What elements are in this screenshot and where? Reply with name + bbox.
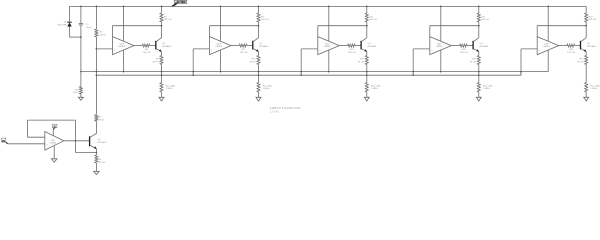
transistor Q2	[253, 38, 259, 52]
resistor R23 emitter	[585, 56, 588, 65]
ground stage 2	[256, 97, 261, 101]
wire base stage 2	[247, 45, 252, 47]
svg-text:+10 VDC: +10 VDC	[175, 0, 186, 4]
label R2 430 OH	[164, 16, 172, 21]
junction collector column at rail stage 4	[478, 6, 480, 8]
resistor R8	[95, 155, 98, 163]
label U1B LM324	[215, 44, 222, 49]
wire collector column stage 3	[366, 6, 368, 37]
resistor R13 emitter	[365, 56, 368, 65]
input flag IN	[1, 138, 7, 144]
svg-text:4K43: 4K43	[73, 92, 79, 94]
svg-text:LM324: LM324	[543, 46, 550, 48]
wire noninverting input stage 4	[413, 48, 430, 50]
op-amp U6 V- pin	[53, 146, 55, 159]
junction cap at rail	[80, 6, 82, 8]
label Q3 MPSA06	[368, 43, 377, 48]
svg-text:39 OH: 39 OH	[249, 61, 256, 63]
label RL-LOAD 1 MEG stage 2	[263, 84, 273, 90]
wire feedback stage 4	[430, 26, 479, 37]
transistor Q6	[90, 134, 97, 150]
capacitor C1	[79, 24, 83, 25]
svg-text:MPSA06: MPSA06	[480, 45, 489, 48]
junction power pin bus stage 4	[440, 71, 442, 73]
svg-text:39 OH: 39 OH	[152, 61, 159, 63]
transistor Q3	[361, 38, 367, 52]
svg-text:39 OH: 39 OH	[577, 61, 584, 63]
label R18 39 OH	[470, 59, 477, 64]
reference column wire	[95, 6, 97, 133]
junction feedback stage 5	[585, 25, 587, 27]
svg-text:MPSA06: MPSA06	[98, 141, 107, 144]
resistor R17 collector	[477, 13, 480, 22]
label Q6 MPSA06	[98, 139, 107, 144]
resistor R22 collector	[585, 13, 588, 22]
note text	[270, 107, 302, 113]
resistor RL-LOAD stage 2	[257, 83, 260, 93]
wire feed column stage 4	[412, 49, 414, 75]
resistor R24 base	[567, 44, 575, 47]
label R9 430 OH	[261, 16, 269, 21]
junction feed bus2 stage 2	[192, 74, 194, 76]
resistor R4 base	[142, 44, 150, 47]
label R13 39 OH	[358, 59, 365, 64]
power flag +10VDC	[172, 0, 187, 6]
junction ladder at rail	[96, 6, 98, 8]
svg-text:1N4746A: 1N4746A	[57, 24, 67, 27]
svg-text:1N: 1N	[2, 139, 5, 143]
label U1C LM324	[324, 44, 331, 49]
svg-text:1 2 3 4 5: 1 2 3 4 5	[270, 112, 280, 114]
label R11 10K OH	[240, 49, 248, 54]
resistor R10 emitter	[257, 56, 260, 65]
svg-text:1 MEG: 1 MEG	[590, 88, 597, 90]
label U1A LM324	[118, 43, 125, 49]
svg-text:1 MEG: 1 MEG	[263, 88, 270, 90]
ground stage 1	[159, 97, 164, 101]
label R6 4K432	[100, 32, 107, 37]
junction feedback stage 2	[258, 25, 260, 27]
wire common bus lower	[96, 72, 521, 76]
svg-text:-: -	[114, 41, 115, 44]
junction emitter bus2 stage 4	[478, 74, 480, 76]
label U1E LM324	[543, 44, 550, 49]
resistor RL-LOAD stage 4	[477, 83, 480, 93]
wire noninverting input stage 1	[96, 48, 112, 50]
wire emitter column stage 1	[161, 52, 163, 98]
label R5 4K43	[73, 89, 79, 94]
svg-text:10K OH: 10K OH	[460, 52, 468, 54]
wire op-amp output stage 3	[339, 45, 347, 47]
resistor R9 collector	[257, 13, 260, 22]
power flag U6 V+	[52, 124, 57, 128]
junction cap at bus	[80, 71, 82, 73]
op-amp U6 V+ pin	[53, 128, 54, 136]
svg-text:430 OH: 430 OH	[481, 19, 489, 21]
wire collector column stage 5	[585, 6, 587, 37]
resistor R19 base	[460, 44, 468, 47]
transistor Q4	[473, 38, 479, 52]
label RL-LOAD 1 MEG stage 1	[166, 84, 176, 90]
wire op-amp output stage 4	[451, 45, 459, 47]
wire base stage 4	[467, 45, 472, 47]
wire noninverting input stage 5	[521, 48, 537, 50]
junction emitter bus1 stage 4	[478, 71, 480, 73]
label R14 10K OH	[348, 49, 356, 54]
junction power pin rail stage 4	[440, 6, 442, 8]
wire feedback stage 5	[537, 26, 586, 37]
svg-text:-: -	[539, 41, 540, 44]
svg-text:4K432: 4K432	[100, 34, 107, 36]
junction ladder bus2	[96, 74, 98, 76]
transistor Q1	[156, 38, 162, 52]
junction feed bus1 stage 4	[412, 71, 414, 73]
wire diode to cap	[70, 36, 81, 38]
svg-text:LM324: LM324	[215, 46, 222, 48]
svg-text:430 OH: 430 OH	[261, 19, 269, 21]
label C1 10uF	[86, 24, 92, 29]
svg-text:1 MEG: 1 MEG	[166, 88, 173, 90]
label Q5 MPSA06	[587, 43, 596, 48]
label R8 43 OH	[99, 159, 106, 164]
svg-text:39 OH: 39 OH	[470, 61, 477, 63]
wire Q6 emitter	[95, 149, 97, 172]
svg-text:RL-LOAD: RL-LOAD	[590, 84, 600, 87]
svg-text:10 uF: 10 uF	[86, 27, 92, 29]
junction power pin rail stage 2	[220, 6, 222, 8]
svg-text:10K OH: 10K OH	[240, 52, 248, 54]
junction power pin rail stage 1	[123, 6, 125, 8]
svg-text:LM324: LM324	[324, 46, 331, 48]
op-amp U1D	[430, 37, 452, 55]
junction power pin bus stage 1	[123, 71, 125, 73]
label R24 10K OH	[567, 49, 575, 54]
junction feed bus1 stage 2	[192, 71, 194, 73]
ground U6	[51, 159, 57, 162]
wire op-amp power pins stage 3	[328, 6, 330, 71]
wire noninverting input stage 3	[301, 48, 318, 50]
svg-text:MPSA06: MPSA06	[259, 45, 268, 48]
resistor R12 collector	[365, 13, 368, 22]
op-amp U6	[45, 132, 64, 151]
svg-text:10K OH: 10K OH	[143, 52, 151, 54]
label RL-LOAD 1 MEG stage 4	[483, 84, 493, 90]
svg-text:-: -	[46, 137, 47, 140]
junction collector column at rail stage 1	[161, 6, 163, 8]
ground stage 5	[584, 97, 589, 101]
svg-text:430 OH: 430 OH	[589, 19, 597, 21]
wire emitter column stage 2	[258, 52, 260, 98]
op-amp U6 -input wire	[28, 136, 45, 138]
label U1D LM324	[436, 44, 443, 49]
label R23 39 OH	[577, 59, 584, 64]
wire op-amp power pins stage 5	[547, 6, 549, 71]
label R10 39 OH	[249, 59, 256, 64]
op-amp U6 +input wire	[8, 143, 45, 145]
svg-text:MPSA06: MPSA06	[587, 45, 596, 48]
wire noninverting input stage 2	[193, 48, 209, 50]
resistor R7	[95, 115, 98, 122]
wire emitter column stage 5	[585, 52, 587, 98]
svg-text:RL-LOAD: RL-LOAD	[483, 84, 493, 87]
wire collector column stage 2	[258, 6, 260, 37]
junction emitter bus1 stage 3	[366, 71, 368, 73]
junction ladder bus1	[96, 71, 98, 73]
resistor R2 collector	[160, 13, 163, 22]
transistor Q5	[581, 38, 587, 52]
wire op-amp power pins stage 1	[123, 6, 125, 71]
label R17 430 OH	[481, 16, 489, 21]
junction diode-cap	[80, 36, 82, 38]
junction feed bus1 stage 3	[300, 71, 302, 73]
svg-text:1 MEG: 1 MEG	[371, 88, 378, 90]
wire feedback stage 3	[318, 26, 367, 37]
svg-text:LM324: LM324	[118, 46, 125, 48]
op-amp U1A	[113, 37, 135, 55]
svg-text:1 MEG: 1 MEG	[483, 88, 490, 90]
wire collector column stage 1	[161, 6, 163, 37]
capacitor C1 branch wire	[80, 6, 82, 71]
label U6 LM324	[50, 140, 57, 145]
label R7 1K02	[99, 117, 105, 122]
svg-text:-: -	[431, 41, 432, 44]
junction emitter bus1 stage 2	[258, 71, 260, 73]
wire feedback stage 2	[210, 26, 259, 37]
wire feed column stage 2	[192, 49, 194, 75]
label Q2 MPSA06	[259, 43, 268, 48]
junction U6 output	[75, 140, 77, 142]
junction emitter bus2 stage 1	[161, 74, 163, 76]
wire op-amp output stage 5	[559, 45, 567, 47]
resistor R3 emitter	[160, 56, 163, 65]
label R12 430 OH	[369, 16, 377, 21]
ground stage 3	[364, 97, 369, 101]
junction emitter bus2 stage 3	[366, 74, 368, 76]
wire common bus upper	[81, 71, 548, 73]
svg-text:LM324: LM324	[436, 46, 443, 48]
wire collector column stage 4	[478, 6, 480, 37]
svg-text:430 OH: 430 OH	[369, 19, 377, 21]
label R19 10K OH	[460, 49, 468, 54]
svg-text:1K02: 1K02	[99, 120, 105, 122]
junction power pin bus stage 3	[328, 71, 330, 73]
svg-text:MPSA06: MPSA06	[162, 45, 171, 48]
junction power pin rail stage 5	[547, 6, 549, 8]
svg-text:MPSA06: MPSA06	[368, 45, 377, 48]
op-amp U6 feedback wire	[28, 120, 76, 141]
svg-text:LM324: LM324	[50, 142, 57, 144]
wire op-amp power pins stage 2	[220, 6, 222, 71]
wire U6 emitter feedback	[76, 141, 97, 153]
wire feed column stage 3	[300, 49, 302, 75]
op-amp U1E	[537, 37, 559, 55]
junction feed bus2 stage 4	[412, 74, 414, 76]
junction power pin rail stage 3	[328, 6, 330, 8]
junction emitter bus1 stage 1	[161, 71, 163, 73]
ground below R5	[78, 97, 83, 100]
svg-text:-: -	[211, 41, 212, 44]
junction power pin bus stage 2	[220, 71, 222, 73]
resistor R18 emitter	[477, 56, 480, 65]
svg-text:-: -	[319, 41, 320, 44]
resistor R5	[79, 87, 82, 95]
wire emitter column stage 3	[366, 52, 368, 98]
wire feedback stage 1	[113, 26, 162, 37]
zener diode D1	[67, 22, 72, 26]
resistor R5 wire	[80, 72, 82, 98]
label R22 430 OH	[589, 16, 597, 21]
svg-text:10K OH: 10K OH	[348, 52, 356, 54]
label D1 1N4746A	[57, 22, 67, 27]
svg-text:43 OH: 43 OH	[99, 162, 106, 164]
wire emitter column stage 4	[478, 52, 480, 98]
resistor R11 base	[239, 44, 247, 47]
wire feed column stage 5	[520, 49, 522, 75]
zener diode D1 branch wire	[69, 6, 71, 37]
ground stage 4	[476, 97, 481, 101]
svg-text:430 OH: 430 OH	[164, 19, 172, 21]
wire op-amp power pins stage 4	[440, 6, 442, 71]
op-amp U1C	[318, 37, 340, 55]
junction emitter bus2 stage 2	[258, 74, 260, 76]
junction ladder tap	[96, 48, 98, 50]
label R3 39 OH	[152, 59, 159, 64]
svg-text:10K OH: 10K OH	[567, 52, 575, 54]
junction feed bus2 stage 3	[300, 74, 302, 76]
label RL-LOAD 1 MEG stage 5	[590, 84, 600, 90]
svg-text:39 OH: 39 OH	[358, 61, 365, 63]
resistor RL-LOAD stage 3	[365, 83, 368, 93]
svg-text:RL-LOAD: RL-LOAD	[263, 84, 273, 87]
wire U6 output	[64, 140, 89, 142]
svg-text:RL-LOAD: RL-LOAD	[371, 84, 381, 87]
ground below R8	[94, 171, 100, 174]
wire +V rail	[70, 5, 587, 7]
wire base stage 3	[355, 45, 360, 47]
svg-text:5 AMPS AT 5 PLACES TOTAL: 5 AMPS AT 5 PLACES TOTAL	[270, 107, 302, 110]
wire op-amp output stage 1	[134, 45, 142, 47]
op-amp U1B	[210, 37, 232, 55]
wire base stage 1	[150, 45, 155, 47]
label Q4 MPSA06	[480, 43, 489, 48]
resistor R14 base	[348, 44, 356, 47]
resistor R6	[95, 29, 98, 37]
svg-text:RL-LOAD: RL-LOAD	[166, 84, 176, 87]
junction feedback stage 3	[366, 25, 368, 27]
junction collector column at rail stage 3	[366, 6, 368, 8]
resistor RL-LOAD stage 1	[160, 83, 163, 93]
svg-text:B: B	[54, 125, 56, 129]
junction collector column at rail stage 2	[258, 6, 260, 8]
label R4 10K OH	[143, 49, 151, 54]
label Q1 MPSA06	[162, 43, 171, 48]
junction feed bus1 stage 5	[520, 71, 522, 73]
junction feedback stage 1	[161, 25, 163, 27]
junction emitter feedback	[96, 152, 98, 154]
junction feedback stage 4	[478, 25, 480, 27]
wire op-amp output stage 2	[231, 45, 239, 47]
resistor RL-LOAD stage 5	[585, 83, 588, 93]
label RL-LOAD 1 MEG stage 3	[371, 84, 381, 90]
wire base stage 5	[575, 45, 580, 47]
